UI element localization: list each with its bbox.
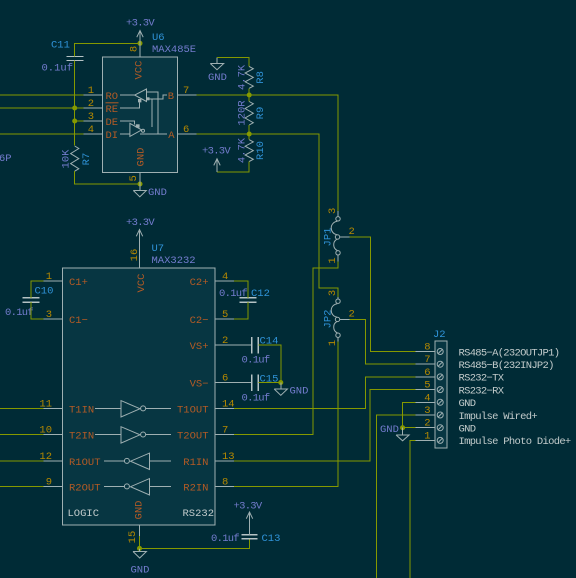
svg-text:C1−: C1− — [69, 315, 88, 327]
svg-text:RS232: RS232 — [183, 508, 215, 520]
U6 pin 6 A — [168, 124, 196, 142]
svg-text:VS−: VS− — [190, 379, 209, 391]
svg-text:GND: GND — [136, 148, 148, 167]
wire R1OUT — [0, 460, 44, 462]
svg-text:GND: GND — [290, 386, 309, 398]
wire T1OUT to J2 pin6 — [234, 377, 416, 408]
svg-text:3: 3 — [46, 309, 52, 321]
wire C12 bottom — [234, 302, 248, 319]
svg-text:C13: C13 — [262, 533, 281, 545]
wire J2 pin3 down — [376, 415, 415, 578]
wires U7 left — [0, 408, 44, 486]
svg-text:+3.3V: +3.3V — [126, 217, 155, 229]
svg-text:B: B — [168, 91, 174, 103]
svg-text:Impulse Photo Diode+: Impulse Photo Diode+ — [459, 436, 571, 448]
svg-text:T2OUT: T2OUT — [177, 430, 209, 442]
svg-text:14: 14 — [222, 398, 235, 410]
power +3.3V C13 — [234, 501, 263, 535]
U6 internal driver — [120, 121, 167, 136]
svg-text:0.1uf: 0.1uf — [211, 533, 239, 545]
svg-text:4: 4 — [424, 392, 430, 404]
svg-text:0.1uf: 0.1uf — [242, 355, 270, 367]
wire U7 pin15 to GND — [139, 536, 141, 548]
svg-text:GND: GND — [208, 72, 227, 84]
svg-text:C14: C14 — [260, 336, 279, 348]
svg-text:+3.3V: +3.3V — [202, 146, 231, 158]
wire GND to R8 — [217, 57, 249, 66]
wire R10 top — [248, 134, 250, 140]
U7 pin 12 R1OUT — [39, 451, 100, 469]
wire GND to C13 — [140, 539, 250, 549]
svg-text:RS485−A(232OUTJP1): RS485−A(232OUTJP1) — [459, 347, 560, 359]
junction C14/C15 — [278, 380, 283, 385]
svg-text:GND: GND — [459, 424, 476, 436]
wire J2 pin4 GND — [403, 402, 416, 427]
svg-text:2: 2 — [424, 418, 430, 430]
svg-text:2: 2 — [88, 98, 94, 110]
U6 pin 1 RO — [84, 85, 119, 103]
svg-text:1: 1 — [327, 340, 339, 346]
svg-text:U6: U6 — [152, 32, 165, 44]
junction VCC/C11 — [138, 41, 143, 46]
capacitor C10 — [5, 286, 53, 320]
U7 pin 4 C2+ — [190, 271, 234, 289]
jumper JP1 — [323, 208, 355, 264]
wire JP2 pin1 to R2IN — [234, 342, 338, 487]
svg-text:1: 1 — [88, 85, 94, 97]
U6 pin 7 B — [168, 85, 197, 103]
junction J2 GND — [400, 425, 405, 430]
IC U6 MAX485E — [103, 32, 197, 173]
wire B net — [197, 95, 339, 211]
svg-text:A: A — [168, 130, 175, 142]
svg-text:C2+: C2+ — [190, 277, 209, 289]
capacitor C15 — [215, 374, 278, 405]
svg-text:6P: 6P — [0, 153, 12, 165]
U6 pin 8 VCC — [129, 46, 146, 80]
svg-text:0.1uf: 0.1uf — [219, 288, 247, 300]
svg-text:3: 3 — [327, 290, 339, 296]
power +3.3V U7 — [126, 217, 155, 268]
svg-text:3: 3 — [424, 405, 430, 417]
svg-text:0.1uf: 0.1uf — [5, 307, 33, 319]
svg-text:6: 6 — [183, 124, 189, 136]
U7 buffer T2 — [95, 427, 171, 443]
wires-left-U6 — [0, 95, 84, 134]
resistor R8 — [237, 64, 268, 90]
svg-text:RO: RO — [106, 91, 119, 103]
svg-text:4: 4 — [88, 124, 94, 136]
junction GND pin5 — [138, 182, 143, 187]
wire C14 right — [258, 345, 280, 383]
capacitor C11 — [42, 40, 84, 75]
U7 pin 1 C1+ — [44, 271, 88, 289]
U7 pin 6 VS- — [190, 373, 229, 391]
svg-text:9: 9 — [46, 476, 52, 488]
wire C11 top — [75, 43, 140, 56]
wire R7 bottom to U6 GND pin — [75, 171, 140, 184]
wire A net — [197, 134, 339, 297]
wire C10 top — [31, 281, 44, 298]
resistor R7 — [61, 146, 94, 171]
svg-text:5: 5 — [128, 175, 140, 181]
svg-text:R1OUT: R1OUT — [69, 457, 101, 469]
power +3.3V U6 — [126, 18, 155, 58]
U7 pin 11 T1IN — [39, 398, 94, 416]
svg-text:1: 1 — [46, 271, 52, 283]
svg-text:2: 2 — [349, 309, 355, 321]
svg-text:R2OUT: R2OUT — [69, 482, 101, 494]
svg-text:C10: C10 — [35, 286, 54, 298]
svg-text:GND: GND — [380, 424, 399, 436]
J2 pin 8 — [416, 342, 560, 360]
wire R1IN to J2 pin5 — [234, 390, 416, 461]
J2 pin 1 — [416, 430, 571, 448]
svg-text:GND: GND — [459, 398, 476, 410]
resistor R9 — [237, 100, 268, 126]
junction DE net — [72, 119, 77, 124]
wire J2 pin1 down — [410, 440, 416, 578]
junction B/R8 — [247, 93, 252, 98]
U6 internal receiver — [120, 89, 167, 134]
U7 pin 3 C1- — [44, 309, 88, 327]
jumper JP2 — [323, 290, 355, 346]
svg-text:120R: 120R — [237, 100, 249, 126]
svg-text:C1+: C1+ — [69, 277, 88, 289]
svg-text:GND: GND — [134, 501, 146, 520]
junction A/R10 — [247, 132, 252, 137]
svg-text:8: 8 — [222, 476, 228, 488]
svg-text:16: 16 — [129, 249, 141, 262]
svg-text:6: 6 — [222, 373, 228, 385]
capacitor C14 — [215, 336, 278, 367]
wire RE to left edge — [0, 107, 84, 109]
wire RO to left edge — [0, 94, 84, 96]
J2 pin 6 — [416, 367, 505, 385]
svg-text:T1OUT: T1OUT — [177, 404, 209, 416]
svg-text:R9: R9 — [255, 107, 267, 120]
svg-text:MAX3232: MAX3232 — [152, 255, 196, 267]
svg-text:T1IN: T1IN — [69, 404, 94, 416]
wire R9 bottom — [248, 125, 250, 134]
J2 pin 2 — [416, 418, 476, 436]
U6 pin 2 RE — [84, 98, 119, 116]
svg-text:RS232−TX: RS232−TX — [459, 373, 505, 385]
svg-text:0.1uf: 0.1uf — [42, 63, 74, 75]
U7 buffer R2 — [104, 479, 171, 495]
svg-text:5: 5 — [424, 380, 430, 392]
svg-text:R7: R7 — [81, 153, 93, 166]
U7 pin 5 C2- — [190, 309, 234, 327]
wire JP1 pin2 to J2 pin8 — [350, 237, 416, 352]
U7 pin 14 T1OUT — [177, 398, 235, 416]
svg-text:GND: GND — [131, 565, 150, 577]
U7 pin 8 R2IN — [183, 476, 234, 494]
U7 pin 2 VS+ — [190, 335, 229, 353]
svg-text:R10: R10 — [255, 141, 267, 160]
svg-text:T2IN: T2IN — [69, 430, 94, 442]
svg-text:6: 6 — [424, 367, 430, 379]
svg-text:+3.3V: +3.3V — [234, 501, 263, 513]
svg-text:2: 2 — [349, 226, 355, 238]
wire T1IN — [0, 407, 44, 409]
U7 pin 16 VCC — [129, 249, 148, 293]
svg-text:8: 8 — [129, 46, 141, 52]
svg-text:1: 1 — [424, 430, 430, 442]
svg-text:C12: C12 — [251, 288, 270, 300]
svg-text:5: 5 — [222, 309, 228, 321]
svg-text:GND: GND — [148, 187, 167, 199]
wire DE stub — [75, 120, 84, 122]
ground C14/C15 — [274, 383, 308, 398]
svg-text:DI: DI — [106, 130, 119, 142]
svg-text:10K: 10K — [61, 149, 73, 169]
svg-text:4: 4 — [222, 271, 228, 283]
svg-text:VCC: VCC — [134, 61, 146, 80]
svg-text:C2−: C2− — [190, 315, 209, 327]
svg-text:R2IN: R2IN — [183, 482, 208, 494]
capacitor C13 — [211, 533, 280, 545]
svg-text:JP2: JP2 — [323, 310, 335, 329]
capacitor C12 — [219, 288, 270, 302]
svg-text:J2: J2 — [433, 329, 446, 341]
U7 pin 15 GND — [127, 501, 146, 544]
svg-text:0.1uf: 0.1uf — [242, 393, 270, 405]
svg-text:C15: C15 — [260, 374, 279, 386]
svg-text:3: 3 — [88, 111, 94, 123]
wire C15 right — [258, 382, 280, 384]
svg-text:1: 1 — [327, 257, 339, 263]
svg-text:8: 8 — [424, 342, 430, 354]
svg-text:4.7K: 4.7K — [237, 64, 249, 90]
ground R8 top — [208, 57, 227, 84]
wire R10 bottom to +3.3V — [217, 162, 249, 173]
svg-text:R8: R8 — [255, 71, 267, 84]
svg-text:7: 7 — [222, 424, 228, 436]
U6 pin 4 DI — [84, 124, 119, 142]
svg-text:13: 13 — [222, 451, 235, 463]
svg-text:MAX485E: MAX485E — [152, 44, 196, 56]
svg-text:7: 7 — [183, 85, 189, 97]
svg-text:RS232−RX: RS232−RX — [459, 385, 505, 397]
U7 pin 10 T2IN — [39, 424, 94, 442]
ground J2 — [380, 424, 409, 441]
svg-text:Impulse Wired+: Impulse Wired+ — [459, 411, 538, 423]
U7 buffer R1 — [104, 453, 171, 469]
svg-text:U7: U7 — [152, 243, 165, 255]
U7 pin 9 R2OUT — [44, 476, 101, 494]
wire T2IN — [0, 433, 44, 435]
U7 pin 7 T2OUT — [177, 424, 234, 442]
U6 pin 5 GND — [128, 148, 148, 184]
svg-text:JP1: JP1 — [323, 228, 335, 247]
J2 pin 7 — [416, 354, 554, 372]
svg-text:3: 3 — [327, 208, 339, 214]
wire C11 bottom vertical net — [74, 61, 76, 146]
svg-text:7: 7 — [424, 354, 430, 366]
wire R2OUT — [0, 485, 44, 487]
wire J2 pin2 GND — [403, 427, 416, 429]
IC U7 MAX3232 — [63, 243, 216, 525]
svg-text:4.7K: 4.7K — [237, 137, 249, 163]
U7 buffer T1 — [95, 401, 171, 417]
junction pin15/C13 — [137, 546, 142, 551]
svg-text:VCC: VCC — [136, 274, 148, 293]
U6 pin 3 DE — [84, 111, 119, 129]
svg-text:+3.3V: +3.3V — [126, 18, 155, 30]
svg-text:15: 15 — [127, 531, 139, 544]
svg-text:RE: RE — [106, 104, 119, 116]
J2 pin 4 — [416, 392, 476, 410]
svg-text:DE: DE — [106, 117, 119, 129]
resistor R10 — [237, 137, 268, 163]
U7 pin 13 R1IN — [183, 451, 234, 469]
J2 pin 5 — [416, 380, 505, 398]
svg-text:LOGIC: LOGIC — [68, 508, 100, 520]
wire R9 top — [248, 95, 250, 102]
power +3.3V R10 — [202, 146, 231, 173]
wire C10 bottom — [31, 302, 44, 319]
junction RE net — [72, 106, 77, 111]
svg-text:VS+: VS+ — [190, 341, 209, 353]
J2 pin 3 — [416, 405, 538, 423]
wire R8 bottom — [248, 88, 250, 95]
ground U7 pin15 — [131, 548, 150, 576]
ground U6 pin5 — [133, 184, 167, 199]
wire JP1 pin1 to T2OUT — [234, 262, 338, 435]
wire DI to left edge — [0, 133, 84, 135]
svg-text:2: 2 — [222, 335, 228, 347]
wire C12 top — [234, 281, 248, 298]
svg-text:R1IN: R1IN — [183, 457, 208, 469]
connector J2 — [433, 329, 447, 448]
wire JP2 pin2 to J2 pin7 — [350, 319, 416, 364]
svg-text:C11: C11 — [51, 40, 70, 52]
svg-text:RS485−B(232INJP2): RS485−B(232INJP2) — [459, 360, 554, 372]
